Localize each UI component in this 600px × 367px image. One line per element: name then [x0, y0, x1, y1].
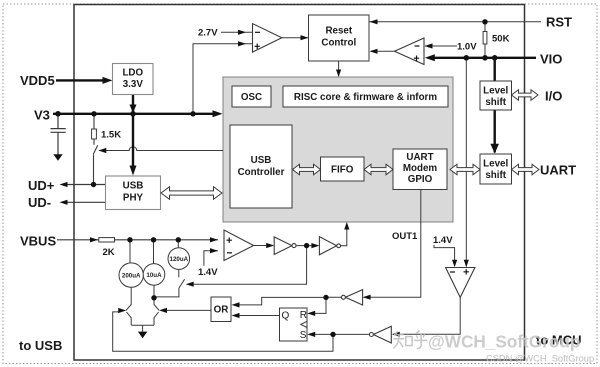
- svg-text:1.4V: 1.4V: [198, 267, 218, 278]
- svg-text:OR: OR: [214, 305, 229, 316]
- svg-text:RISC core & firmware & inform: RISC core & firmware & inform: [294, 92, 437, 103]
- svg-text:VDD5: VDD5: [20, 73, 55, 88]
- svg-text:Control: Control: [321, 38, 356, 49]
- svg-text:1.0V: 1.0V: [457, 42, 477, 53]
- svg-text:Controller: Controller: [238, 167, 285, 178]
- svg-text:shift: shift: [485, 97, 506, 108]
- svg-text:USB: USB: [123, 181, 144, 192]
- svg-text:3.3V: 3.3V: [123, 79, 144, 90]
- svg-text:1.5K: 1.5K: [101, 130, 121, 141]
- svg-text:Level: Level: [483, 159, 508, 170]
- svg-text:Level: Level: [483, 86, 508, 97]
- svg-text:2.7V: 2.7V: [198, 28, 218, 39]
- svg-text:UART: UART: [540, 163, 576, 178]
- svg-text:50K: 50K: [492, 34, 510, 45]
- svg-text:PHY: PHY: [123, 193, 144, 204]
- svg-text:LDO: LDO: [122, 68, 143, 79]
- svg-text:UD+: UD+: [28, 178, 55, 193]
- svg-text:OSC: OSC: [241, 92, 262, 103]
- svg-text:V3: V3: [34, 108, 50, 123]
- svg-text:UD-: UD-: [28, 195, 51, 210]
- svg-text:GPIO: GPIO: [408, 174, 433, 185]
- svg-text:USB: USB: [251, 155, 272, 166]
- svg-text:10uA: 10uA: [146, 272, 162, 279]
- svg-text:1.4V: 1.4V: [433, 235, 453, 246]
- svg-text:VIO: VIO: [540, 52, 562, 67]
- svg-text:UART: UART: [406, 152, 433, 163]
- svg-text:VBUS: VBUS: [20, 234, 56, 249]
- svg-text:S: S: [300, 330, 307, 341]
- svg-text:CSDN @WCH_SoftGroup: CSDN @WCH_SoftGroup: [486, 354, 594, 364]
- svg-text:shift: shift: [485, 170, 506, 181]
- svg-text:FIFO: FIFO: [331, 165, 354, 176]
- svg-text:Q: Q: [282, 311, 290, 322]
- svg-text:R: R: [300, 310, 307, 321]
- svg-text:to USB: to USB: [19, 338, 62, 353]
- svg-text:120uA: 120uA: [170, 256, 189, 263]
- svg-text:@WCH_SoftGroup: @WCH_SoftGroup: [428, 332, 580, 352]
- svg-text:Reset: Reset: [325, 26, 352, 37]
- svg-text:200uA: 200uA: [122, 273, 141, 280]
- svg-text:OUT1: OUT1: [392, 231, 418, 242]
- svg-text:Modem: Modem: [403, 163, 438, 174]
- svg-text:RST: RST: [546, 15, 572, 30]
- svg-text:I/O: I/O: [545, 89, 562, 104]
- svg-text:2K: 2K: [103, 247, 115, 258]
